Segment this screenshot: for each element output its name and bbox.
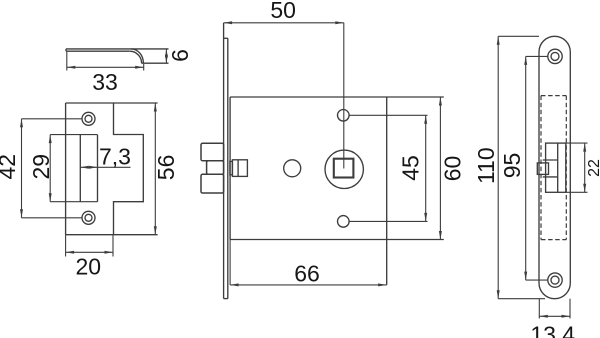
dimension 6 line	[165, 49, 167, 63]
lock body left edge	[229, 97, 231, 240]
dimension 66 line	[230, 284, 387, 286]
dimension 56 arrows	[154, 103, 157, 235]
dimension 95 extension lines	[526, 56, 548, 280]
dimension 33 line	[67, 66, 144, 68]
dimension 29 arrows	[49, 135, 52, 202]
dimension 42 arrows	[20, 119, 23, 218]
latch bolt bevel inner arc	[130, 51, 142, 63]
forend latch divider vertical	[557, 143, 559, 192]
dimension 22 line	[584, 143, 586, 192]
latch bolt tail big block	[232, 160, 247, 177]
forend plate rounded outline	[539, 36, 570, 298]
strike plate opening top line + 29 extension	[50, 134, 97, 136]
dimension 110 extension lines	[498, 36, 545, 298]
lock faceplate left edge with 50 extension	[223, 23, 225, 299]
svg-text:60: 60	[440, 156, 466, 182]
lock faceplate right edge	[227, 38, 229, 298]
forend latch small left tab	[537, 163, 548, 175]
svg-text:42: 42	[0, 154, 20, 180]
latch bolt side profile second line	[66, 50, 130, 52]
lock faceplate top cap	[224, 37, 228, 39]
forend screw hole top	[548, 49, 562, 63]
svg-text:13,4: 13,4	[530, 322, 575, 338]
forend screw hole bottom	[548, 273, 562, 287]
dimension 29 line	[49, 135, 51, 202]
svg-text:50: 50	[270, 0, 296, 23]
lock body right edge with 66 extension	[386, 97, 388, 285]
svg-text:33: 33	[92, 69, 118, 95]
dimension 42 line	[21, 119, 23, 218]
lock body screw hole bottom	[338, 216, 350, 228]
dimension 33 arrows	[67, 66, 144, 69]
svg-text:6: 6	[167, 49, 193, 62]
spindle square	[334, 159, 354, 178]
strike plate bottom edge with extension	[66, 234, 158, 236]
strike plate left edge	[65, 103, 67, 235]
dimension 110 line	[497, 36, 499, 298]
dimension 42 extension lines	[22, 119, 83, 218]
dimension 95 line	[525, 56, 527, 280]
dimension 33 extension lines	[67, 51, 144, 70]
latch bolt tail narrow block	[230, 161, 233, 174]
dimension 7,3 arrows	[80, 166, 97, 169]
lock body top edge with 60 extension	[230, 96, 444, 98]
dimension 6 arrows	[165, 49, 168, 63]
dimension 60 line	[439, 97, 441, 240]
dimension 50 arrows	[224, 21, 344, 24]
dimension 13,4 extension lines	[539, 299, 570, 319]
dimension 56 line	[154, 103, 156, 235]
svg-text:66: 66	[294, 260, 320, 286]
dimension 45 arrows	[424, 115, 427, 221]
dimension 20 line	[66, 251, 113, 253]
strike plate top edge with extension	[66, 102, 158, 104]
strike plate screw hole bottom	[82, 211, 95, 224]
svg-text:95: 95	[499, 153, 525, 179]
lock body screw hole top	[338, 110, 350, 122]
latch bolt side profile top line	[66, 48, 169, 50]
lock body bottom edge with 60 extension	[230, 239, 444, 241]
latch bolt head bottom block	[201, 174, 224, 193]
dimension 45 line	[425, 115, 427, 221]
strike plate right side with tab	[114, 103, 144, 235]
lock body small circle	[284, 160, 301, 177]
dimension 13,4 arrows	[539, 315, 570, 318]
latch bolt bevel outer arc	[131, 49, 143, 63]
spindle circle	[325, 150, 363, 188]
spindle center extension line	[343, 23, 345, 169]
svg-text:45: 45	[398, 155, 424, 181]
dimension 110 arrows	[497, 36, 500, 298]
dimension 22 extension lines	[566, 143, 588, 192]
latch bolt head top block	[201, 143, 224, 160]
latch bolt head middle block	[207, 161, 224, 175]
hidden lock body dashed outline	[541, 96, 566, 240]
forend latch horizontal lines	[543, 160, 558, 177]
latch bolt side profile left cap	[65, 49, 67, 51]
latch bolt side profile bottom line	[142, 62, 169, 64]
dimension 45 extension lines	[350, 115, 428, 221]
dimension 13,4 line	[539, 315, 570, 317]
strike plate screw hole top	[82, 112, 95, 125]
strike plate opening bottom line + 29 extension	[50, 201, 97, 203]
dimension 95 arrows	[524, 56, 527, 280]
lock faceplate bottom cap	[224, 298, 228, 300]
dimension 66 arrows	[230, 283, 387, 286]
svg-text:29: 29	[28, 154, 54, 180]
dimension 50 line	[224, 22, 344, 24]
forend latch outer rect	[546, 143, 566, 192]
strike plate latch opening rect	[80, 135, 97, 202]
dimension 22 arrows	[583, 143, 586, 192]
lock body left 66 extension	[229, 240, 231, 285]
svg-text:7,3: 7,3	[99, 144, 131, 170]
dimension 7,3 line	[80, 166, 130, 168]
latch bolt tail divider	[237, 160, 239, 177]
svg-text:56: 56	[153, 155, 179, 181]
dimension 60 arrows	[439, 97, 442, 240]
svg-text:110: 110	[473, 147, 499, 184]
dimension 20 arrows	[66, 251, 113, 254]
svg-text:22: 22	[586, 159, 600, 177]
svg-text:20: 20	[76, 254, 102, 280]
dimension 20 extension lines	[66, 235, 113, 257]
